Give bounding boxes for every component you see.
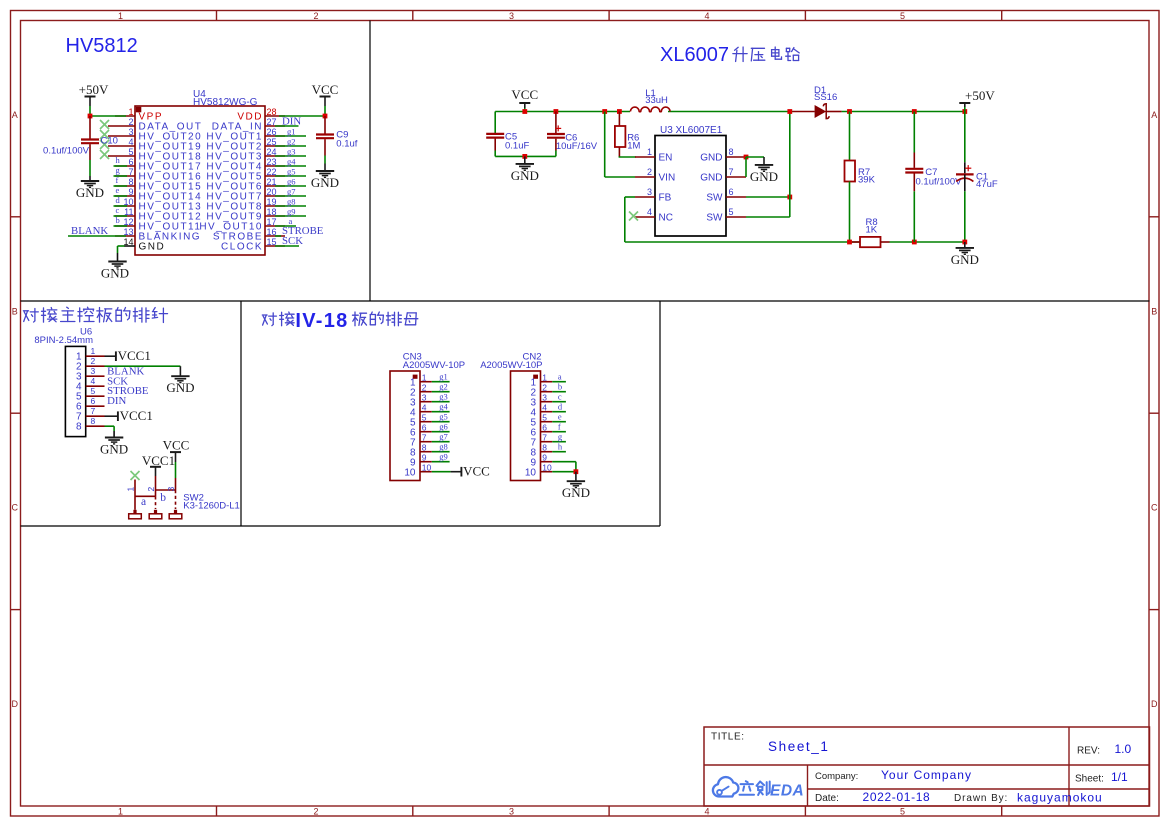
net label g4 wire on U4 pin 23 (275, 165, 306, 167)
svg-text:3: 3 (91, 366, 96, 376)
svg-text:7: 7 (422, 433, 427, 443)
connector U6 pin 7 (86, 415, 105, 417)
svg-text:b: b (116, 215, 120, 225)
svg-text:6: 6 (729, 187, 734, 197)
svg-text:GND: GND (511, 168, 539, 183)
connector CN2 body (511, 371, 541, 481)
svg-text:14: 14 (123, 237, 133, 247)
svg-text:7: 7 (128, 167, 133, 177)
connector CN2 pin 8 (541, 451, 553, 453)
svg-text:b: b (160, 492, 166, 504)
svg-text:g1: g1 (439, 372, 448, 382)
wire rail down to R7 (849, 112, 851, 161)
ic U4 pin 18 (HV_OUT9) (265, 215, 285, 217)
svg-text:REV:: REV: (1077, 746, 1100, 757)
svg-text:g7: g7 (439, 432, 448, 442)
net label g2 wire on U4 pin 25 (275, 145, 306, 147)
svg-text:g3: g3 (287, 147, 296, 157)
ruler row ticks right (1150, 216, 1160, 218)
svg-text:U3 XL6007E1: U3 XL6007E1 (660, 125, 723, 136)
svg-text:GND: GND (311, 175, 339, 190)
ic U3 pin 2 (VIN) (635, 176, 655, 178)
svg-text:BLANK: BLANK (71, 225, 108, 237)
svg-text:A2005WV-10P: A2005WV-10P (480, 360, 542, 371)
svg-text:1K: 1K (866, 225, 878, 236)
svg-text:2: 2 (313, 807, 318, 817)
ic U3 pin 8 (GND) (726, 156, 746, 158)
svg-text:SW: SW (706, 193, 723, 204)
top power rail wire (L1 to D1) (668, 111, 793, 113)
ic U4 pin 23 (HV_OUT4) (265, 165, 285, 167)
svg-text:5: 5 (128, 147, 133, 157)
svg-text:+50V: +50V (79, 82, 109, 97)
connector CN2 pin 4 (541, 411, 553, 413)
svg-text:9: 9 (422, 453, 427, 463)
net label d wire on CN2 pin 4 (552, 411, 566, 413)
net label a wire on CN2 pin 1 (552, 381, 566, 383)
svg-text:g3: g3 (439, 392, 448, 402)
svg-text:2: 2 (647, 167, 652, 177)
svg-text:47uF: 47uF (976, 179, 998, 190)
net label g1 wire on CN3 pin 1 (432, 381, 450, 383)
ic U4 pin 26 (HV_OUT1) (265, 135, 285, 137)
svg-text:7: 7 (91, 406, 96, 416)
net label g7 wire on CN3 pin 7 (432, 441, 450, 443)
svg-text:3: 3 (542, 393, 547, 403)
svg-text:NC: NC (659, 213, 673, 224)
section divider vertical between HV5812 and XL6007 (369, 21, 371, 302)
SW2 contact bar b (pins 2-3) (156, 489, 176, 491)
connector U6 pin 8 (86, 425, 105, 427)
net label SCK on U4 pin 15 (275, 245, 299, 247)
svg-text:8PIN-2.54mm: 8PIN-2.54mm (34, 335, 93, 346)
connector CN2 pin 1 (541, 381, 553, 383)
svg-text:4: 4 (91, 376, 96, 386)
connector CN2 pin 7 (541, 441, 553, 443)
connector U6 pin 2 (86, 365, 105, 367)
ic U3 pin 1 (EN) (635, 156, 655, 158)
svg-text:7: 7 (542, 433, 547, 443)
EasyEDA logo text 立创 (740, 781, 755, 795)
svg-text:C: C (12, 503, 19, 513)
svg-text:g2: g2 (287, 137, 296, 147)
title block column divider REV (1068, 727, 1070, 806)
section divider horizontal under HV5812/XL6007 (21, 300, 1150, 302)
svg-text:D: D (1151, 699, 1158, 709)
svg-text:5: 5 (91, 386, 96, 396)
svg-text:33uH: 33uH (645, 95, 668, 106)
wire CN2 pin 10 to ground node (552, 471, 576, 473)
svg-text:D: D (12, 699, 19, 709)
ic U4 pin 2 (DATA_OUT) (108, 125, 135, 127)
svg-text:+50V: +50V (965, 88, 995, 103)
svg-text:FB: FB (659, 193, 672, 204)
ic U4 pin 24 (HV_OUT3) (265, 155, 285, 157)
net label g9 wire on U4 pin 18 (275, 215, 306, 217)
capacitor C1 body (polarized electrolytic) (964, 112, 966, 163)
svg-text:1/1: 1/1 (1111, 770, 1128, 784)
svg-text:B: B (12, 307, 18, 317)
ic U4 pin 15 (CLOCK) (265, 245, 285, 247)
ic U4 pin 27 (DATA_IN) (265, 125, 285, 127)
svg-text:VCC: VCC (511, 87, 538, 102)
svg-text:1: 1 (542, 373, 547, 383)
title block row divider 2 (808, 788, 1150, 790)
svg-text:C: C (1151, 503, 1158, 513)
ground symbol at U3 GND (755, 164, 773, 166)
net label DIN on U4 pin 27 (275, 125, 299, 127)
ic U4 pin 7 (HV_OUT16) (115, 175, 135, 177)
svg-text:2: 2 (146, 487, 156, 492)
svg-text:GND: GND (101, 266, 129, 281)
ic U4 pin 22 (HV_OUT5) (265, 175, 285, 177)
ground symbol below C9 (324, 164, 326, 172)
svg-text:g2: g2 (439, 382, 448, 392)
net label g6 wire on CN3 pin 6 (432, 431, 450, 433)
svg-text:f: f (116, 175, 119, 185)
svg-text:GND: GND (700, 153, 722, 164)
connector CN3 pin 7 (420, 441, 432, 443)
junction C6 on rail (554, 109, 559, 114)
svg-text:e: e (116, 185, 120, 195)
connector U6 pin 5 (86, 395, 105, 397)
net label g3 wire on U4 pin 24 (275, 155, 306, 157)
connector U6 pin 1 (86, 355, 105, 357)
top power rail wire (VCC to L1) (495, 111, 630, 113)
svg-text:7: 7 (729, 167, 734, 177)
svg-text:2022-01-18: 2022-01-18 (863, 790, 931, 804)
ic U4 pin 8 (HV_OUT15) (115, 185, 135, 187)
net label g6 wire on U4 pin 21 (275, 185, 306, 187)
svg-text:4: 4 (704, 11, 709, 21)
wire U3 FB loop to bottom rail (625, 196, 635, 198)
SW2 contact bar a (pins 1-2) (135, 495, 156, 497)
svg-text:kaguyamokou: kaguyamokou (1017, 791, 1103, 805)
SW2 pin 1 lead (134, 480, 136, 510)
svg-text:d: d (558, 402, 563, 412)
svg-text:1: 1 (422, 373, 427, 383)
net label g2 wire on CN3 pin 2 (432, 391, 450, 393)
connector CN3 pin 8 (420, 451, 432, 453)
section divider vertical between pin-header and IV-18 sections (240, 301, 242, 526)
connector CN3 body (390, 371, 420, 481)
svg-text:SW: SW (706, 213, 723, 224)
svg-text:9: 9 (542, 453, 547, 463)
connector CN3 pin 2 (420, 391, 432, 393)
junction C1/+50V on rail (962, 109, 967, 114)
svg-text:8: 8 (422, 443, 427, 453)
inductor L1 body (630, 107, 670, 112)
capacitor C5 leg (494, 112, 496, 134)
svg-text:8: 8 (542, 443, 547, 453)
ic U3 XL6007E1 body (655, 136, 726, 237)
ic U4 pin 17 (HV_OUT10) (265, 225, 285, 227)
svg-text:Sheet:: Sheet: (1075, 774, 1104, 785)
connector CN2 pin 3 (541, 401, 553, 403)
junction SW riser (787, 195, 792, 200)
ic U4 pin 1 (VPP) (115, 115, 135, 117)
svg-text:4: 4 (704, 807, 709, 817)
ground symbol below VCC filter caps (524, 156, 526, 164)
SW2 pin 3 lead (175, 478, 177, 490)
svg-text:28: 28 (267, 107, 277, 117)
ground symbol below C10 (89, 176, 91, 181)
ic U4 pin 4 (HV_OUT19) (108, 145, 135, 147)
net label g8 wire on CN3 pin 8 (432, 451, 450, 453)
resistor R8 body (860, 237, 881, 247)
ic U3 pin 7 (GND) (726, 176, 746, 178)
svg-text:Drawn By:: Drawn By: (954, 793, 1008, 804)
svg-text:1: 1 (647, 147, 652, 157)
svg-text:IV-18: IV-18 (295, 310, 348, 332)
svg-text:5: 5 (729, 207, 734, 217)
svg-text:39K: 39K (858, 175, 876, 186)
svg-text:10: 10 (525, 468, 537, 479)
net label g1 wire on U4 pin 26 (275, 135, 306, 137)
svg-text:h: h (558, 442, 563, 452)
svg-text:10uF/16V: 10uF/16V (556, 141, 598, 152)
svg-text:2: 2 (91, 356, 96, 366)
connector CN3 pin 3 (420, 401, 432, 403)
ic U4 pin 14 (GND) (124, 245, 135, 247)
svg-text:SS16: SS16 (814, 92, 837, 103)
ic U4 pin 13 (BLANKING) (115, 235, 135, 237)
connector CN2 pin 5 (541, 421, 553, 423)
svg-text:Company:: Company: (815, 771, 858, 782)
connector CN2 pin 6 (541, 431, 553, 433)
R8 pin stubs (852, 241, 860, 243)
ruler column ticks bottom (216, 806, 218, 816)
title block outer border (704, 727, 1150, 806)
title block column divider logo/company (807, 765, 809, 806)
junction U3 GND pins 8/7 tie (744, 155, 749, 160)
svg-text:1: 1 (128, 107, 133, 117)
svg-text:GND: GND (100, 442, 128, 457)
svg-text:Sheet_1: Sheet_1 (768, 739, 830, 754)
svg-text:c: c (558, 392, 562, 402)
net label b wire on CN2 pin 2 (552, 391, 566, 393)
svg-text:a: a (558, 372, 562, 382)
power flag VCC on CN3 pin 10 (432, 471, 451, 473)
svg-text:CLOCK: CLOCK (221, 242, 263, 253)
section title: socket to IV-18 board (262, 313, 276, 326)
ic U4 pin 11 (HV_OUT12) (115, 215, 135, 217)
svg-text:3: 3 (422, 393, 427, 403)
ic U4 pin 28 (VDD) (265, 115, 285, 117)
svg-text:EN: EN (659, 153, 673, 164)
connector CN2 pin 10 (541, 471, 553, 473)
svg-text:GND: GND (139, 242, 166, 253)
net label g7 wire on U4 pin 20 (275, 195, 306, 197)
U4 pin 14 wire to ground (118, 245, 125, 247)
wire U3 SW pin6 to riser (746, 196, 790, 198)
svg-text:g8: g8 (287, 197, 296, 207)
capacitor C6 body (polarized) (555, 112, 557, 134)
svg-text:6: 6 (128, 157, 133, 167)
wire R6 to U3 EN (619, 156, 636, 158)
net label g5 wire on U4 pin 22 (275, 175, 306, 177)
svg-text:0.1uF: 0.1uF (505, 141, 529, 152)
junction VCC on rail (522, 109, 527, 114)
bottom feedback rail wire (625, 241, 859, 243)
svg-text:g: g (558, 432, 563, 442)
svg-text:8: 8 (91, 416, 96, 426)
svg-text:VCC1: VCC1 (118, 348, 151, 363)
junction at +50V / C10 (88, 114, 93, 119)
ruler row ticks left (11, 216, 21, 218)
svg-text:3: 3 (509, 807, 514, 817)
svg-text:4: 4 (128, 137, 133, 147)
svg-text:2: 2 (422, 383, 427, 393)
svg-text:HV5812: HV5812 (66, 35, 138, 57)
junction R6 top on rail (617, 109, 622, 114)
svg-text:2: 2 (542, 383, 547, 393)
svg-text:c: c (116, 205, 120, 215)
junction C7 bottom (912, 240, 917, 245)
junction at C5/C6 ground node (522, 154, 527, 159)
svg-text:TITLE:: TITLE: (711, 732, 745, 743)
connector CN3 pin 9 (420, 461, 432, 463)
connector CN2 pin 2 (541, 391, 553, 393)
connector CN3 pin 5 (420, 421, 432, 423)
junction at VCC / C9 (323, 114, 328, 119)
svg-text:e: e (558, 412, 562, 422)
SW2 pads (133, 510, 136, 514)
svg-text:10: 10 (404, 468, 416, 479)
net label BLANK wire to U4 pin 13 (68, 235, 126, 237)
connector CN3 pin 4 (420, 411, 432, 413)
EasyEDA logo cloud icon (713, 777, 739, 796)
svg-text:VCC: VCC (312, 82, 339, 97)
svg-text:DIN: DIN (107, 395, 126, 407)
no-connect mark on U3 pin 4 NC (629, 212, 638, 221)
svg-text:10: 10 (422, 463, 432, 473)
net label g9 wire on CN3 pin 9 (432, 461, 450, 463)
svg-text:1M: 1M (627, 140, 640, 151)
power flag VCC1 on U6 pin 7 (105, 415, 118, 417)
svg-text:VCC1: VCC1 (142, 453, 175, 468)
svg-text:g6: g6 (439, 422, 448, 432)
ground symbol for U6 pin 8 (105, 437, 123, 439)
svg-text:6: 6 (422, 423, 427, 433)
svg-text:3: 3 (166, 487, 176, 492)
ic U4 pin 16 (STROBE) (265, 235, 285, 237)
svg-text:1: 1 (118, 11, 123, 21)
svg-text:10: 10 (542, 463, 552, 473)
SW2 pin 2 lead (155, 476, 157, 496)
svg-text:GND: GND (166, 380, 194, 395)
ground symbol below U4 pin 14 (108, 261, 126, 263)
wire +50V junction to U4 pin 1 (90, 115, 126, 117)
top power rail wire (D1 to +50V) (842, 111, 965, 113)
ic U4 pin 21 (HV_OUT6) (265, 185, 285, 187)
net label h wire on CN2 pin 8 (552, 451, 566, 453)
capacitor C10 body (89, 116, 91, 139)
svg-text:8: 8 (76, 421, 82, 432)
svg-text:0.1uf/100V: 0.1uf/100V (43, 146, 90, 157)
svg-text:1: 1 (126, 487, 136, 492)
junction VIN drop on rail (602, 109, 607, 114)
svg-text:3: 3 (128, 127, 133, 137)
U4 left segment stub wires with labels h g f e d c b (pins 6-12) (114, 165, 128, 167)
svg-text:4: 4 (542, 403, 547, 413)
svg-text:GND: GND (700, 173, 722, 184)
junction C7 top on rail (912, 109, 917, 114)
net label e wire on CN2 pin 5 (552, 421, 566, 423)
wire U6 pin 8 to ground (105, 425, 115, 427)
svg-text:0.1uf/100V: 0.1uf/100V (916, 177, 963, 188)
svg-text:0.1uf: 0.1uf (336, 139, 357, 150)
svg-text:g8: g8 (439, 442, 448, 452)
svg-text:3: 3 (647, 187, 652, 197)
svg-text:3: 3 (509, 11, 514, 21)
svg-text:8: 8 (128, 177, 133, 187)
net label g3 wire on CN3 pin 3 (432, 401, 450, 403)
net label f wire on CN2 pin 6 (552, 431, 566, 433)
net label g wire on CN2 pin 7 (552, 441, 566, 443)
ic U4 pin 10 (HV_OUT13) (115, 205, 135, 207)
capacitor C5 body (486, 133, 504, 135)
svg-text:A: A (12, 110, 18, 120)
svg-text:VIN: VIN (659, 173, 676, 184)
svg-text:6: 6 (542, 423, 547, 433)
svg-text:8: 8 (729, 147, 734, 157)
ic U4 pin 9 (HV_OUT14) (115, 195, 135, 197)
svg-text:B: B (1151, 307, 1157, 317)
net label a wire on U4 pin 17 (275, 225, 296, 227)
wire U4 pin 28 to VCC (279, 115, 325, 117)
svg-text:4: 4 (422, 403, 427, 413)
ic U3 pin 4 (NC) (635, 216, 655, 218)
svg-text:1: 1 (91, 346, 96, 356)
svg-text:g5: g5 (287, 167, 296, 177)
svg-text:VCC1: VCC1 (120, 408, 153, 423)
svg-text:GND: GND (76, 185, 104, 200)
svg-text:Your Company: Your Company (881, 768, 972, 782)
net label g5 wire on CN3 pin 5 (432, 421, 450, 423)
ic U4 HV5812WG-G body (135, 106, 265, 255)
svg-text:SCK: SCK (282, 235, 303, 247)
ic U3 pin 5 (SW) (726, 216, 746, 218)
svg-text:A2005WV-10P: A2005WV-10P (403, 360, 465, 371)
svg-text:g9: g9 (287, 207, 296, 217)
capacitor C7 body (913, 112, 915, 153)
section divider horizontal under connector sections (21, 525, 661, 527)
section divider vertical right of IV-18 section (659, 301, 661, 526)
svg-text:6: 6 (91, 396, 96, 406)
ic U4 pin 25 (HV_OUT2) (265, 145, 285, 147)
connector CN3 pin 6 (420, 431, 432, 433)
connector U6 pin 6 (86, 405, 105, 407)
wire U3 GND to ground symbol (746, 156, 764, 158)
capacitor C9 body (324, 116, 326, 134)
junction CN2 ground node (574, 469, 579, 474)
svg-text:g5: g5 (439, 412, 448, 422)
connector U6 pin 3 (86, 375, 105, 377)
svg-text:VCC: VCC (163, 437, 190, 452)
svg-text:K3-1260D-L1: K3-1260D-L1 (183, 500, 240, 511)
svg-text:1: 1 (118, 807, 123, 817)
resistor R6 body (618, 112, 620, 126)
no-connect marks on U4 pins 2-5 (100, 120, 109, 129)
resistor R7 body (845, 161, 856, 182)
junction D1 output on rail (847, 109, 852, 114)
svg-text:5: 5 (422, 413, 427, 423)
bottom rail right of R8 (890, 241, 965, 243)
wire CN2 pin 9 to ground node (552, 461, 576, 463)
junction SW riser on rail (787, 109, 792, 114)
connector CN3 pin 10 (420, 471, 432, 473)
